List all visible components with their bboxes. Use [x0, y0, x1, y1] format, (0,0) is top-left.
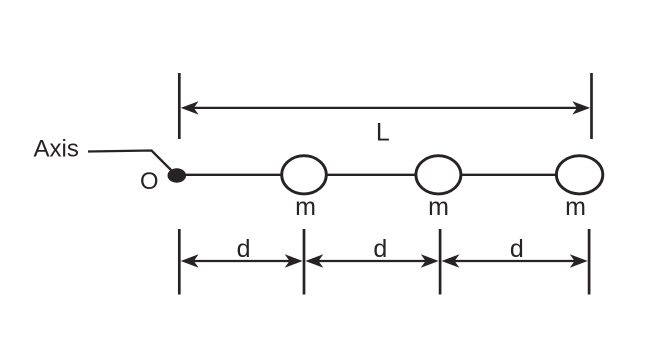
- svg-text:m: m: [295, 193, 316, 221]
- svg-text:m: m: [565, 193, 586, 221]
- svg-text:d: d: [510, 235, 524, 263]
- svg-text:m: m: [428, 193, 449, 221]
- svg-text:Axis: Axis: [34, 136, 79, 163]
- svg-text:d: d: [237, 235, 251, 263]
- svg-text:O: O: [140, 168, 159, 195]
- svg-text:L: L: [376, 119, 390, 147]
- svg-text:d: d: [373, 235, 387, 263]
